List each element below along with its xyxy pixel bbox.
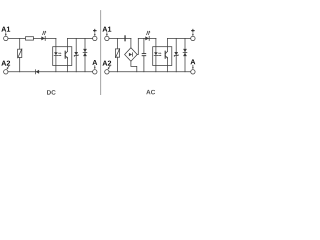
- wire top rail right (AC): [168, 37, 191, 39]
- wire collector up (DC): [67, 38, 69, 51]
- suppressor diode D4 (DC): [83, 38, 87, 71]
- optocoupler U2 box (AC): [153, 47, 172, 66]
- series element bar (AC input): [124, 35, 125, 41]
- wire varistor branch bottom (AC): [117, 57, 119, 72]
- caption DC: [47, 90, 56, 95]
- terminal label A1 (DC): [1, 27, 10, 32]
- wire varistor branch top (AC): [117, 38, 119, 49]
- wire emitter down (DC): [67, 58, 69, 72]
- terminal A1 (AC): [105, 36, 109, 40]
- optocoupler U1 box (DC): [53, 47, 72, 66]
- terminal A (DC): [93, 70, 97, 74]
- varistor RV1 (DC): [18, 49, 22, 58]
- wire drop into optocoupler (DC): [55, 38, 57, 52]
- divider line between DC and AC: [100, 11, 102, 95]
- capacitor C1 (AC): [142, 38, 147, 71]
- wire bottom rail (AC): [109, 71, 191, 73]
- arrow A2 to terminal: [7, 66, 9, 69]
- wire opto LED cathode down (DC): [55, 56, 57, 72]
- arrow + to terminal (DC): [94, 34, 96, 37]
- arrow A1 to terminal: [5, 33, 7, 36]
- resistor R1 (DC): [26, 37, 34, 40]
- wire emitter down (AC): [167, 58, 169, 72]
- terminal + (AC): [191, 36, 195, 40]
- wire collector up (AC): [167, 38, 169, 51]
- wire varistor branch bottom (DC): [19, 58, 21, 72]
- terminal label A1 (AC): [102, 27, 111, 32]
- arrow A2 to terminal (AC): [108, 66, 110, 69]
- opto light arrows (DC): [59, 53, 62, 56]
- diode D1 bottom rail (DC): [35, 70, 39, 74]
- wire bottom rail (DC): [8, 71, 93, 73]
- terminal label A (DC): [92, 60, 97, 65]
- suppressor diode D8 (AC): [183, 38, 187, 71]
- terminal label A (AC): [190, 59, 195, 64]
- terminal label A2 (AC): [102, 61, 111, 66]
- terminal label + (AC): [191, 29, 195, 33]
- wire top rail right (DC): [68, 37, 93, 39]
- wire top rail left (DC): [8, 37, 26, 39]
- caption AC: [146, 90, 155, 95]
- varistor RV2 (AC): [115, 49, 119, 58]
- zener diode D7 (AC): [174, 38, 178, 71]
- wire top rail left (AC): [109, 37, 131, 39]
- optocoupler LED (DC): [54, 52, 58, 55]
- arrow A to terminal (DC): [94, 66, 96, 70]
- arrow A1 to terminal (AC): [106, 33, 108, 36]
- zener diode D3 (DC): [74, 38, 78, 71]
- optocoupler LED (AC): [154, 52, 158, 55]
- wire bridge bottom jog (AC): [131, 61, 137, 72]
- phototransistor Q1 (DC): [65, 51, 68, 58]
- terminal + (DC): [93, 36, 97, 40]
- LED indicator D6 (AC): [145, 31, 150, 41]
- wire varistor branch top (DC): [19, 38, 21, 49]
- wire top rail to LED (DC): [34, 37, 56, 39]
- terminal A1 (DC): [4, 36, 8, 40]
- phototransistor Q2 (AC): [165, 51, 168, 58]
- wire bridge plus riser (AC): [137, 38, 138, 54]
- terminal label + (DC): [93, 29, 97, 33]
- wire opto LED cathode down (AC): [155, 56, 157, 72]
- bridge rectifier BR1 (AC): [125, 48, 138, 62]
- LED indicator D2 (DC): [41, 31, 46, 41]
- terminal A2 (AC): [105, 70, 109, 74]
- arrow + to terminal (AC): [192, 34, 194, 37]
- arrow A to terminal (AC): [192, 65, 194, 69]
- terminal label A2 (DC): [1, 61, 10, 66]
- wire top rail mid (AC): [138, 37, 156, 39]
- terminal A (AC): [191, 70, 195, 74]
- wire drop into optocoupler (AC): [155, 38, 157, 52]
- opto light arrows (AC): [159, 53, 162, 56]
- terminal A2 (DC): [4, 70, 8, 74]
- wire corner into bridge (AC): [130, 38, 132, 47]
